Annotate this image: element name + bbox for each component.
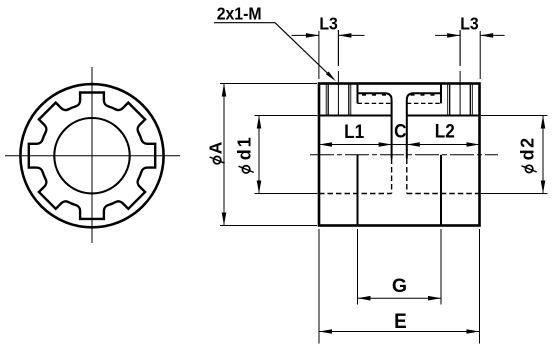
- bore top edge (sectioned): [319, 115, 480, 117]
- center line vertical (front view): [91, 67, 93, 243]
- label L2: [435, 119, 455, 141]
- svg-text:L2: L2: [435, 119, 455, 141]
- svg-text:G: G: [392, 275, 407, 297]
- dimension E: [319, 229, 480, 344]
- tapped hole right M thread major lines: [448, 85, 473, 116]
- dimension phid1: [235, 116, 318, 194]
- tapped hole right center line: [459, 30, 461, 116]
- tapped hole left minor walls: [328, 85, 349, 116]
- svg-text:L3: L3: [460, 14, 478, 34]
- tapped hole left M thread major lines: [326, 85, 351, 116]
- outer circle (sleeve OD): [20, 84, 163, 227]
- bore circle: [54, 118, 129, 193]
- tapped hole right minor walls: [450, 85, 471, 116]
- bore bottom hidden line: [319, 193, 480, 195]
- slot inner profile with fillets into centre hole: [358, 93, 440, 158]
- groove wall left (G): [357, 155, 359, 226]
- dimension line L1-C-L2: [319, 142, 480, 147]
- label C: [394, 119, 406, 141]
- slot outer wall left: [357, 84, 359, 104]
- slot outer wall right: [440, 84, 442, 104]
- svg-text:2x1-M: 2x1-M: [217, 3, 262, 23]
- dimension phiA: [206, 84, 318, 226]
- label 2x1-M with leader: [214, 3, 336, 81]
- thread tick marks in slot: [362, 93, 435, 95]
- dimension G: [358, 229, 442, 305]
- svg-text:d1: d1: [235, 135, 255, 160]
- axis center line: [310, 154, 498, 156]
- label L1: [344, 120, 364, 142]
- dimension L3 (left): [292, 14, 365, 79]
- groove wall right (G): [440, 155, 442, 226]
- slot floor hidden line: [358, 102, 442, 104]
- svg-text:L3: L3: [319, 14, 337, 34]
- tapped hole left center line: [337, 30, 339, 116]
- svg-text:E: E: [394, 310, 407, 333]
- dimension L3 (right): [435, 14, 505, 79]
- center line horizontal (front view): [5, 155, 180, 157]
- center hole hidden walls: [392, 159, 407, 194]
- svg-text:L1: L1: [344, 120, 364, 142]
- dimension phid2: [481, 116, 548, 194]
- body outline (side view rectangle): [319, 84, 480, 226]
- svg-text:A: A: [206, 141, 226, 154]
- svg-text:C: C: [394, 119, 406, 141]
- svg-text:d2: d2: [518, 136, 538, 160]
- spline tooth profile (8 teeth): [29, 93, 155, 219]
